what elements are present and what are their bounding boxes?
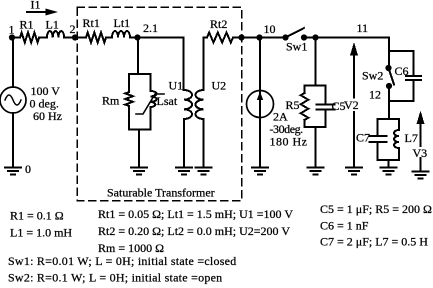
svg-text:L1 = 1.0 mH: L1 = 1.0 mH — [10, 226, 72, 240]
ground (source) — [5, 168, 21, 175]
voltage source sine — [5, 95, 21, 105]
svg-text:Sw2: R=0.1 W; L = 0H; initial: Sw2: R=0.1 W; L = 0H; initial state =ope… — [8, 271, 222, 285]
inductor L1 — [47, 31, 64, 37]
svg-text:C5 = 1 μF; R5 = 200 Ω: C5 = 1 μF; R5 = 200 Ω — [320, 202, 432, 216]
wire: Sw1 to corner at x389 — [304, 37, 389, 39]
svg-text:Rt1: Rt1 — [83, 16, 100, 30]
inductor Lsat — [151, 91, 157, 107]
current source lead (through) — [259, 38, 261, 168]
node 10 — [256, 34, 262, 40]
resistor Rt1 — [86, 33, 106, 43]
wire: R1 to L1 — [39, 37, 47, 39]
wire: U2 bottom lead — [203, 119, 205, 168]
Sw2 bottom contact / node 12 — [386, 83, 392, 89]
V2 arrowhead — [350, 42, 358, 56]
Lsat branch lower — [150, 107, 152, 130]
wire: Sw2 bottom to C7/L7 block — [388, 86, 390, 119]
R5 branch upper — [304, 86, 306, 94]
svg-text:2: 2 — [70, 22, 76, 36]
capacitor C7 — [370, 136, 387, 142]
R5/C5 block top — [305, 85, 326, 87]
svg-text:10: 10 — [264, 22, 276, 36]
wire: riser to Rt2 — [204, 37, 208, 39]
svg-text:R1 = 0.1 Ω: R1 = 0.1 Ω — [10, 209, 64, 223]
ground (V3) — [413, 172, 429, 179]
saturable transformer dashed box — [77, 7, 242, 201]
svg-text:Rt2: Rt2 — [210, 17, 227, 31]
transformer winding U2 — [196, 90, 204, 119]
C7/L7 block top — [378, 118, 400, 120]
svg-text:2.1: 2.1 — [143, 21, 158, 35]
wire: block bottom to ground — [138, 130, 140, 168]
Rm branch lower — [128, 106, 130, 130]
L7 branch upper — [398, 119, 400, 130]
resistor Rt2 — [207, 33, 233, 43]
node 11 junction — [312, 34, 318, 40]
Sw1 left contact — [282, 34, 288, 40]
L7 branch lower — [398, 148, 400, 160]
svg-text:L1: L1 — [46, 18, 59, 32]
current source arrow — [257, 92, 263, 101]
C5 branch upper — [325, 86, 327, 105]
wire: node 2.1 drop to Rm/Lsat block — [137, 38, 139, 75]
svg-text:I1: I1 — [31, 0, 41, 12]
ground (V2) — [346, 168, 362, 175]
svg-text:V2: V2 — [344, 98, 359, 112]
svg-text:Saturable Transformer: Saturable Transformer — [107, 186, 215, 200]
svg-text:U1: U1 — [169, 79, 184, 93]
R5/C5 block bottom — [305, 126, 326, 128]
voltage source lead bottom — [12, 113, 14, 168]
V3 arrowhead — [417, 111, 425, 125]
switch Sw2 blade — [389, 68, 395, 85]
ground (U2) — [196, 168, 212, 175]
svg-text:11: 11 — [357, 21, 369, 35]
svg-text:Rt1 = 0.05 Ω; Lt1 = 1.5 mH; U1: Rt1 = 0.05 Ω; Lt1 = 1.5 mH; U1 =100 V — [98, 207, 293, 221]
wire: tap down to R5/C5 block — [315, 38, 317, 86]
svg-text:Sw1: Sw1 — [286, 40, 307, 54]
svg-text:L7: L7 — [405, 131, 418, 145]
wire: C6 branch bottom — [389, 80, 414, 101]
ground (U1) — [176, 168, 192, 175]
ground (C7/L7) — [380, 168, 396, 175]
voltage source circle — [0, 87, 26, 113]
R5 branch lower — [304, 120, 306, 127]
wire: R5/C5 block to ground — [315, 127, 317, 168]
Sw1 right contact — [301, 34, 307, 40]
svg-text:R1: R1 — [20, 18, 34, 32]
wire: Rt1 to Lt1 — [106, 37, 112, 39]
wire: U1 bottom lead — [183, 119, 185, 168]
svg-text:Lt1: Lt1 — [114, 16, 131, 30]
Rm branch upper — [128, 74, 130, 92]
voltage source V1 lead top — [12, 38, 14, 88]
svg-text:1: 1 — [9, 23, 15, 37]
V2 measurement arrow line — [353, 56, 355, 168]
svg-text:V3: V3 — [413, 146, 428, 160]
capacitor C5 — [317, 105, 335, 110]
svg-text:U2: U2 — [212, 79, 227, 93]
ground (Rm/Lsat) — [131, 168, 147, 175]
transformer output port dot — [238, 34, 244, 40]
C7 branch upper — [377, 119, 379, 136]
C7 branch lower — [377, 142, 379, 160]
wire: node1 to R1 — [12, 37, 20, 39]
current source circle — [247, 91, 274, 118]
resistor R1 — [20, 33, 39, 43]
svg-text:12: 12 — [369, 88, 381, 102]
resistor R5 — [301, 93, 309, 120]
C5 branch lower — [325, 110, 327, 128]
wire: C6 branch top — [389, 51, 414, 76]
svg-text:180 Hz: 180 Hz — [270, 135, 308, 149]
svg-text:Lsat: Lsat — [157, 94, 178, 108]
svg-text:Rm: Rm — [102, 94, 120, 108]
node 2 — [72, 34, 78, 40]
switch Sw1 blade — [286, 28, 305, 38]
wire: Rt2 to Sw1 — [233, 37, 286, 39]
wire: U2 winding riser — [203, 38, 205, 91]
inductor Lt1 — [112, 31, 130, 37]
C7/L7 block bottom — [378, 159, 400, 161]
Lsat arrow — [136, 94, 164, 114]
Rm/Lsat block bottom — [129, 129, 151, 131]
transformer winding U1 — [184, 90, 192, 119]
svg-text:60 Hz: 60 Hz — [33, 109, 62, 123]
svg-text:0: 0 — [25, 162, 31, 176]
node 2.1 — [134, 34, 140, 40]
svg-text:C6: C6 — [395, 64, 409, 78]
resistor Rm — [125, 92, 133, 106]
wire: Lt1 to node 2.1 and on to U1 drop — [130, 37, 184, 39]
node 1 — [9, 34, 15, 40]
svg-text:R5: R5 — [286, 98, 300, 112]
svg-text:Rt2 = 0.20 Ω; Lt2 = 0.0 mH; U2: Rt2 = 0.20 Ω; Lt2 = 0.0 mH; U2=200 V — [98, 224, 290, 238]
svg-text:C7: C7 — [356, 131, 370, 145]
svg-text:C7 = 2 μF; L7 = 0.5 H: C7 = 2 μF; L7 = 0.5 H — [320, 235, 428, 249]
Lsat branch upper — [150, 74, 152, 91]
wire: corner down to Sw2 — [388, 38, 390, 69]
ground (R5/C5) — [308, 168, 324, 175]
wire: drop to U1 winding — [183, 38, 185, 91]
wire: L1 to node2 — [64, 37, 86, 39]
capacitor C6 — [406, 76, 421, 80]
ground (current source) — [252, 168, 268, 175]
junction dots — [9, 34, 392, 89]
Rm/Lsat block top — [129, 73, 151, 75]
svg-text:Rm = 1000 Ω: Rm = 1000 Ω — [98, 241, 164, 255]
V3 measurement arrow line — [420, 124, 422, 172]
svg-text:Sw1: R=0.01 W; L = 0H; initial: Sw1: R=0.01 W; L = 0H; initial state =cl… — [8, 254, 237, 268]
wire: C7/L7 block to ground — [387, 160, 389, 168]
svg-text:C6 = 1 nF: C6 = 1 nF — [320, 219, 369, 233]
inductor L7 — [394, 130, 399, 148]
svg-text:Sw2: Sw2 — [362, 69, 383, 83]
I1 current arrow — [27, 11, 47, 13]
Sw2 top contact — [385, 65, 391, 71]
